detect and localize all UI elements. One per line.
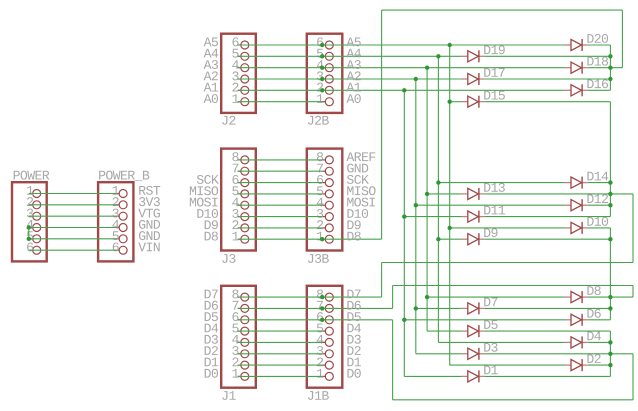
label D0 left of J1 <box>205 369 211 378</box>
wire middle bus stub to right rail <box>610 193 633 195</box>
wire J1 pin 8 to J1B pin 8 <box>238 296 323 298</box>
label D2 left of J1 <box>205 346 211 355</box>
label SCK left of J3 <box>197 175 204 184</box>
diode D7 <box>461 298 497 315</box>
label D6 right of J1B <box>347 301 353 310</box>
wire J3 pin 8 to J3B pin 8 <box>238 159 323 161</box>
label A0 left of J2 <box>204 94 212 103</box>
wire D8 J3B pin 1 to frame <box>322 238 381 240</box>
diode D14 <box>565 172 609 189</box>
wire D17 cathode to bus <box>485 78 611 80</box>
wire A2 branch to D7 anode <box>416 307 462 309</box>
wire J3 pin 1 to J3B pin 1 <box>238 238 323 240</box>
label D3 right of J1B <box>347 335 353 344</box>
junction J2B pin 4 <box>320 66 324 70</box>
wire D15 cathode to bus <box>485 101 611 103</box>
label A5 right of J2B <box>346 38 354 47</box>
label D4 left of J1 <box>205 324 211 333</box>
wire D3 cathode to bus <box>485 353 611 355</box>
wire vertical net A5 bus <box>449 45 451 365</box>
connector J2 <box>221 34 256 125</box>
diode D20 <box>565 34 609 51</box>
ENDlabels <box>27 43 613 368</box>
label D8 right of J3B <box>347 232 353 241</box>
wire POWER pin 4 to POWER_B pin 4 <box>29 227 116 229</box>
label D7 left of J1 <box>205 290 211 299</box>
wire D8 cathode row stub to right rail <box>610 296 633 298</box>
diode D5 <box>461 320 497 337</box>
wire vertical net A3 bus <box>426 68 428 331</box>
junction J2B pin 6 <box>320 43 324 47</box>
wire horizontal row 285 <box>393 285 633 287</box>
wire A2 branch to D12 anode <box>416 204 565 206</box>
wire D14 cathode to bus <box>588 182 611 184</box>
wire D7 J1B pin 8 elbow <box>322 296 381 298</box>
wire D18 cathode to bus and top frame <box>588 67 623 69</box>
wire J3 pin 3 to J3B pin 3 <box>238 216 323 218</box>
wire A5 branch to D15 anode <box>450 101 462 103</box>
junction D7 anode branch <box>414 306 418 310</box>
wire A0 J2 to J2B <box>238 101 323 103</box>
label A3 left of J2 <box>204 60 212 69</box>
wire D16 cathode to bus <box>588 89 611 91</box>
label D6 left of J1 <box>205 301 211 310</box>
junction A row tee <box>425 66 429 70</box>
wire D11 cathode to bus <box>485 216 611 218</box>
wire cathode bus D1-D5 <box>609 331 611 376</box>
wire D5 cathode to bus <box>485 330 611 332</box>
label D7 right of J1B <box>347 290 353 299</box>
wire A1 branch to D11 anode <box>404 216 461 218</box>
junction J1B pin 8 <box>320 295 324 299</box>
connector J2B <box>307 34 343 125</box>
diode D2 <box>565 354 601 371</box>
junction A row tee <box>436 54 440 58</box>
junction J2B pin 5 <box>320 54 324 58</box>
wire A1 J2B to D16 anode <box>322 89 564 91</box>
connector POWER_B <box>98 171 149 262</box>
junction J1B pin 6 <box>320 318 324 322</box>
wire left rail down to D6 row <box>392 286 394 309</box>
wire J3 pin 4 to J3B pin 4 <box>238 204 323 206</box>
wire A2 J2 to J2B <box>238 78 323 80</box>
label D10 right of J3B <box>347 209 353 218</box>
label 3V3 right of POWER_B <box>139 197 145 206</box>
wire cathode bus D16-D20 <box>609 45 611 90</box>
label D1 right of J1B <box>347 358 353 367</box>
wire cathode bus D6-D10 <box>609 228 611 320</box>
wire bottom horizontal row <box>393 399 633 401</box>
label SCK right of J3B <box>347 175 354 184</box>
wire vertical net A4 bus <box>437 56 439 342</box>
label VIN right of POWER_B <box>138 243 146 252</box>
junction A row tee <box>402 88 406 92</box>
label A1 left of J2 <box>204 83 212 92</box>
label A0 right of J2B <box>346 94 354 103</box>
wire GND tie POWER pin 4 to pin 5 <box>28 228 30 239</box>
wire D8 cathode to bus <box>588 296 611 298</box>
wire left rail down to D7 row <box>381 263 383 298</box>
label A5 left of J2 <box>204 38 212 47</box>
junction D18 cathode bus <box>608 66 612 70</box>
label GND right of J3B <box>347 164 353 173</box>
label A1 right of J2B <box>346 83 354 92</box>
wire A5 branch to D10 anode <box>450 227 565 229</box>
label AREF right of J3B <box>346 152 354 161</box>
wire D3 cathode row stub to right rail <box>610 353 633 355</box>
wire A2 branch to D3 anode <box>416 353 462 355</box>
label D1 left of J1 <box>205 358 211 367</box>
wire A3 J2 to J2B <box>238 67 323 69</box>
junction D13 cathode bus <box>608 192 612 196</box>
ENDwires <box>138 38 375 378</box>
wire POWER pin 1 to POWER_B pin 1 <box>29 193 116 195</box>
wire D5 J1B pin 6 elbow <box>322 319 392 321</box>
wire right rail elbow down to D8 cathode row <box>632 286 634 298</box>
label MOSI left of J3 <box>190 198 196 207</box>
wire J1 pin 5 to J1B pin 5 <box>238 330 323 332</box>
junction POWER pin 4 <box>27 225 31 229</box>
diode D1 <box>461 366 497 383</box>
label D5 left of J1 <box>205 312 211 321</box>
wire J3 pin 6 to J3B pin 6 <box>238 182 323 184</box>
wire D13 cathode to bus <box>485 193 611 195</box>
connector J1 <box>221 286 256 400</box>
wire A4 branch to D14 anode <box>438 182 564 184</box>
wire top frame right vertical <box>621 10 623 68</box>
wire A3 J2B to D18 anode <box>322 67 564 69</box>
wire vertical net A1 bus <box>403 90 405 376</box>
junction D14 cathode bus <box>608 180 612 184</box>
diode D15 <box>461 91 504 108</box>
junction D9 cathode bus <box>608 237 612 241</box>
junction J1B pin 7 <box>320 306 324 310</box>
wire top frame left vertical to D8 net <box>381 10 383 239</box>
wire D6 cathode to bus <box>588 319 611 321</box>
wire D20 cathode to bus <box>588 44 611 46</box>
diode D6 <box>565 309 601 326</box>
diode D11 <box>461 206 505 223</box>
wire J3 pin 2 to J3B pin 2 <box>238 227 323 229</box>
wire left rail D5 row down to bottom <box>392 320 394 400</box>
wire J1 pin 2 to J1B pin 2 <box>238 364 323 366</box>
label A4 right of J2B <box>346 49 354 58</box>
diode D19 <box>461 45 504 62</box>
wire cathode bus D11-D15 <box>609 102 611 217</box>
label RST right of POWER_B <box>139 186 146 195</box>
junction D11 anode branch <box>402 214 406 218</box>
wire J1 pin 4 to J1B pin 4 <box>238 341 323 343</box>
wire D4 cathode to bus <box>588 341 611 343</box>
junction D8 cathode bus <box>608 295 612 299</box>
diode D13 <box>461 183 504 200</box>
junction D2 cathode bus <box>608 363 612 367</box>
junction J2B pin 2 <box>320 88 324 92</box>
wire A1 branch to D1 anode <box>404 375 461 377</box>
label D4 right of J1B <box>347 324 353 333</box>
connector J3 <box>221 149 256 263</box>
label MISO right of J3B <box>347 186 353 195</box>
wire POWER pin 6 to POWER_B pin 6 <box>29 249 116 251</box>
wire J1 pin 1 to J1B pin 1 <box>238 375 323 377</box>
wire A3 branch to D13 anode <box>427 193 461 195</box>
label GND right of POWER_B <box>139 231 145 240</box>
diode D16 <box>565 79 608 96</box>
diode D18 <box>565 57 608 74</box>
wire POWER pin 3 to POWER_B pin 3 <box>29 215 116 217</box>
wire horizontal row 262 <box>382 262 633 264</box>
diode D10 <box>565 217 609 234</box>
label D3 left of J1 <box>205 335 211 344</box>
junction A row tee <box>448 43 452 47</box>
wire J1 pin 6 to J1B pin 6 <box>238 319 323 321</box>
wire D7 cathode to bus <box>485 307 611 309</box>
junction D8 anode branch <box>425 295 429 299</box>
junction D14 anode branch <box>436 180 440 184</box>
junction J2B pin 3 <box>320 77 324 81</box>
wire right rail down to row 262 <box>632 194 634 263</box>
label VTG right of POWER_B <box>138 209 146 218</box>
wire D1 cathode to bus <box>485 375 611 377</box>
wire A1 branch to D6 anode <box>404 319 564 321</box>
junction D7 cathode bus <box>608 306 612 310</box>
junction D13 anode branch <box>425 192 429 196</box>
label D9 right of J3B <box>347 220 353 229</box>
junction A row tee <box>414 77 418 81</box>
wire A1 J2 to J2B <box>238 89 323 91</box>
junction D12 cathode bus <box>608 203 612 207</box>
wire A4 branch to D9 anode <box>438 238 461 240</box>
label GND right of POWER_B <box>139 220 145 229</box>
wire top frame horizontal <box>382 9 623 11</box>
label D2 right of J1B <box>347 346 353 355</box>
wire A5 branch to D2 anode <box>450 364 565 366</box>
junction D3 cathode bus <box>608 352 612 356</box>
junction D9 anode branch <box>436 237 440 241</box>
junction D6 anode branch <box>402 318 406 322</box>
diode D12 <box>565 194 608 211</box>
label D10 left of J3 <box>197 209 203 218</box>
wire POWER pin 5 to POWER_B pin 5 <box>29 238 116 240</box>
connector POWER <box>12 171 49 262</box>
junction D19 cathode bus <box>608 54 612 58</box>
junction J3B pin 1 <box>320 237 324 241</box>
diode D3 <box>461 343 497 360</box>
wire right rail down to bottom row <box>632 354 634 400</box>
label D9 left of J3 <box>205 220 211 229</box>
junction POWER pin 5 <box>27 237 31 241</box>
wire POWER pin 2 to POWER_B pin 2 <box>29 204 116 206</box>
label MOSI right of J3B <box>347 198 353 207</box>
junction D12 anode branch <box>414 203 418 207</box>
wire A5 J2 to J2B <box>238 44 323 46</box>
wire A4 branch to D4 anode <box>438 341 564 343</box>
label A3 right of J2B <box>346 60 354 69</box>
label A2 right of J2B <box>346 72 354 81</box>
connector J3B <box>307 149 343 263</box>
diode D17 <box>461 68 504 85</box>
diode D8 <box>565 286 601 303</box>
label D8 left of J3 <box>205 232 211 241</box>
wire A2 J2B to D17 anode <box>322 78 461 80</box>
junction D15 anode branch <box>448 100 452 104</box>
label D0 right of J1B <box>347 369 353 378</box>
wire A4 J2B to D19 anode <box>322 55 461 57</box>
junction D4 cathode bus <box>608 340 612 344</box>
wire J3 pin 7 to J3B pin 7 <box>238 170 323 172</box>
label A2 left of J2 <box>204 72 212 81</box>
wire D6 J1B pin 7 elbow <box>322 307 392 309</box>
wire D2 cathode to bus <box>588 364 611 366</box>
junction D10 anode branch <box>448 226 452 230</box>
diode D4 <box>565 332 601 349</box>
wire D12 cathode to bus <box>588 204 611 206</box>
wire vertical net A2 bus <box>415 79 417 354</box>
diode D9 <box>461 228 497 245</box>
wire J1 pin 7 to J1B pin 7 <box>238 307 323 309</box>
wire D9 cathode to bus <box>485 238 611 240</box>
wire A3 branch to D5 anode <box>427 330 461 332</box>
wire J3 pin 5 to J3B pin 5 <box>238 193 323 195</box>
wire J1 pin 3 to J1B pin 3 <box>238 353 323 355</box>
wire D19 cathode to bus <box>485 55 611 57</box>
connector J1B <box>307 286 343 400</box>
wire A3 branch to D8 anode <box>427 296 564 298</box>
label MISO left of J3 <box>190 186 196 195</box>
junction D17 cathode bus <box>608 77 612 81</box>
wire A5 J2B to D20 anode <box>322 44 564 46</box>
wire A4 J2 to J2B <box>238 55 323 57</box>
label A4 left of J2 <box>204 49 212 58</box>
wire D10 cathode to bus <box>588 227 611 229</box>
label D5 right of J1B <box>347 312 353 321</box>
